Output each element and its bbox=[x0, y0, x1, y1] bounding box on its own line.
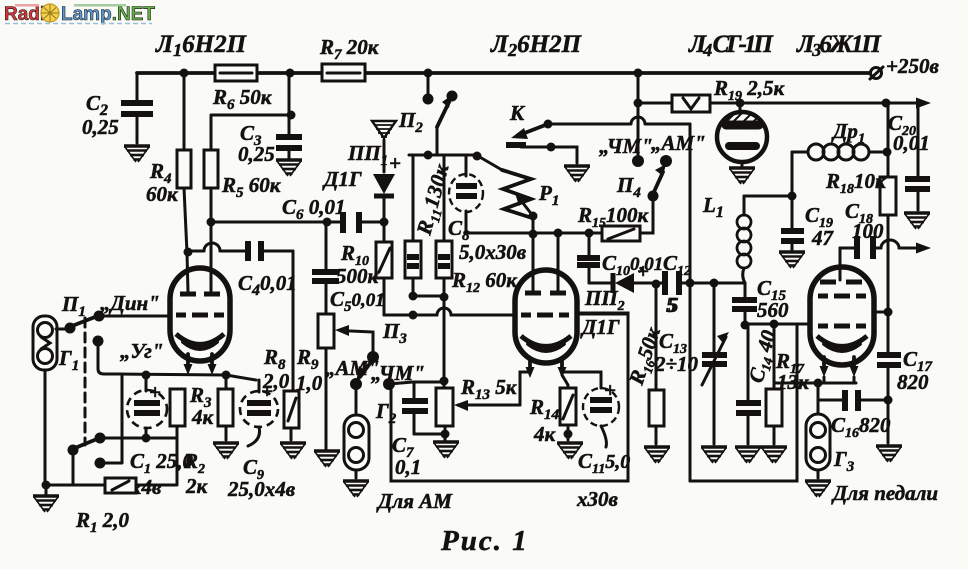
node bus/R4 junction bbox=[180, 69, 189, 78]
svg-text:100: 100 bbox=[852, 219, 884, 243]
ground under R16 bbox=[644, 447, 670, 463]
resistor R15 100k bbox=[577, 203, 650, 241]
resistor R5 60k bbox=[204, 150, 282, 201]
node bus/x638 junction bbox=[634, 69, 643, 78]
svg-text:0,1: 0,1 bbox=[395, 455, 421, 479]
svg-text:Л26Н2П: Л26Н2П bbox=[490, 31, 583, 60]
capacitor C16 820 bbox=[818, 383, 893, 441]
capacitor C5 0,01 bbox=[312, 222, 385, 315]
node contact y438 bbox=[95, 433, 106, 444]
capacitor C15 560 bbox=[732, 276, 789, 325]
node Din contact bbox=[94, 311, 105, 322]
connector G3 bbox=[806, 400, 855, 478]
wire y=233 P1 wiper / C8 / tube L2 / R15 node bbox=[466, 232, 589, 235]
resistor R2 2k bbox=[170, 389, 209, 498]
tube L3 cathode leads bbox=[824, 357, 854, 371]
tube L2 envelope bbox=[515, 270, 577, 363]
svg-text:Radi: Radi bbox=[4, 4, 45, 25]
resistor R6 50k bbox=[212, 65, 273, 113]
ground under R8 bbox=[280, 443, 306, 459]
ground under C17 bbox=[876, 446, 902, 462]
switch P1 top arm bbox=[72, 317, 95, 326]
ground under R13 bbox=[433, 442, 459, 458]
switch P2 arm bbox=[437, 100, 450, 127]
svg-text:+: + bbox=[637, 259, 649, 283]
resistor R17 13k bbox=[766, 324, 810, 444]
ground under K bbox=[564, 166, 590, 182]
wire left column x=413 bbox=[412, 155, 415, 296]
node P4 contact AM bbox=[660, 155, 672, 167]
svg-text:0,25: 0,25 bbox=[82, 115, 119, 139]
ground under R14 bbox=[557, 443, 583, 459]
svg-text:47: 47 bbox=[811, 226, 835, 250]
switch P1 bottom arm bbox=[75, 439, 97, 448]
resistor R4 60k bbox=[146, 150, 191, 206]
wire x690 vertical (K line down to pedal box) bbox=[689, 124, 692, 481]
svg-text:Для педали: Для педали bbox=[831, 481, 938, 505]
svg-text:Д1Г: Д1Г bbox=[322, 167, 362, 191]
L4 hatched anode bbox=[726, 121, 759, 130]
svg-text:Д1Г: Д1Г bbox=[580, 315, 620, 339]
resistor R16 50k bbox=[624, 323, 669, 444]
capacitor C18 100 output bbox=[840, 199, 931, 267]
ground under G3 bbox=[805, 481, 831, 497]
svg-text:Л16Н2П: Л16Н2П bbox=[155, 31, 248, 60]
wire P4 to R15 bbox=[640, 196, 653, 233]
tube L3 top lead bbox=[839, 248, 842, 280]
node P3 common bbox=[367, 351, 379, 363]
svg-text:R6 50к: R6 50к bbox=[212, 85, 273, 113]
tube L2 top electrode bars bbox=[525, 291, 566, 296]
svg-text:820: 820 bbox=[897, 370, 929, 394]
tube L3 grid dashes row2 bbox=[818, 324, 866, 329]
ground under R9 bbox=[314, 451, 340, 467]
wire bus to P2 contact bbox=[427, 73, 430, 95]
trimmer capacitor C13 2-10 bbox=[654, 283, 729, 444]
svg-text:К: К bbox=[509, 101, 526, 125]
svg-text:+250в: +250в bbox=[886, 54, 939, 78]
svg-text:+: + bbox=[604, 378, 616, 402]
wire rail to P1 bbox=[478, 156, 502, 170]
arrow bus2 end bbox=[916, 98, 931, 109]
tube L1 envelope bbox=[170, 268, 230, 361]
connector G1 bbox=[33, 316, 57, 370]
wire Din line to tube L1 grid bbox=[99, 315, 171, 318]
capacitor C6 0,01 bbox=[211, 195, 384, 233]
terminal +250V circle bbox=[871, 68, 882, 79]
svg-text:С6 0,01: С6 0,01 bbox=[282, 195, 346, 223]
resistor R7 20k bbox=[319, 35, 380, 81]
L4 cathode bar bbox=[729, 142, 756, 150]
diode D1G (PP1) bbox=[373, 151, 401, 222]
wire Ug contact down to cathode rail bbox=[98, 341, 120, 374]
connector G2 bbox=[344, 384, 397, 478]
svg-text:Рис. 1: Рис. 1 bbox=[440, 525, 529, 557]
dashed link P1 bbox=[84, 318, 87, 445]
resistor R3 4k bbox=[189, 375, 233, 440]
capacitor C3 bbox=[238, 73, 302, 166]
logo dial icon bbox=[41, 4, 59, 22]
wire G1 bottom down bbox=[44, 370, 47, 485]
svg-text:С40,01: С40,01 bbox=[238, 271, 297, 299]
capacitor C10 0,01 bbox=[577, 233, 663, 283]
resistor R12 60k bbox=[436, 241, 452, 278]
wire K line y=125 to x690 bbox=[548, 117, 690, 124]
antenna/ground top of PP1 chain bbox=[372, 121, 396, 172]
wire grid line right of tube to box bbox=[577, 313, 628, 316]
ground under R3 bbox=[213, 443, 239, 459]
node P3 AM contact bbox=[350, 378, 362, 390]
capacitor C14 40 bbox=[736, 324, 783, 444]
capacitor C12 5 bbox=[663, 251, 745, 317]
capacitor C20 0,01 bbox=[888, 103, 930, 210]
tube L2 cathode leads bbox=[530, 358, 562, 372]
svg-text:0,01: 0,01 bbox=[893, 131, 930, 155]
svg-text:С16820: С16820 bbox=[831, 413, 891, 441]
potentiometer R13 5k bbox=[436, 372, 529, 440]
node P2 contact 2 bbox=[447, 91, 458, 102]
svg-text:Л36Ж1П: Л36Ж1П bbox=[796, 31, 883, 60]
svg-text:„АМ": „АМ" bbox=[651, 131, 706, 155]
svg-text:R1810к: R1810к bbox=[825, 169, 887, 197]
resistor R18 10k bbox=[825, 103, 896, 312]
svg-text:0,25: 0,25 bbox=[238, 142, 275, 166]
ground under C14 bbox=[735, 447, 761, 463]
svg-text:R7 20к: R7 20к bbox=[319, 35, 380, 63]
wire bus to R4 bbox=[183, 73, 186, 150]
tube L1 cathode leads with arrows bbox=[188, 354, 212, 368]
node Ug contact bbox=[93, 336, 104, 347]
P1 zigzag bbox=[502, 170, 531, 217]
svg-text:5: 5 bbox=[666, 293, 677, 317]
svg-text:„Уг": „Уг" bbox=[120, 339, 163, 363]
svg-text:„Дин": „Дин" bbox=[100, 291, 160, 315]
wire bus2 y=103 bbox=[638, 102, 916, 105]
ground under C13 bbox=[701, 447, 727, 463]
svg-text:+: + bbox=[149, 380, 161, 404]
capacitor C17 820 bbox=[877, 312, 933, 443]
pedal box outline bbox=[690, 324, 797, 481]
node P4 contact ChM bbox=[632, 155, 644, 167]
P1 wiper arrow bbox=[519, 198, 533, 216]
ground under G2 bbox=[343, 481, 369, 497]
svg-text:R19 2,5к: R19 2,5к bbox=[713, 76, 786, 104]
node P1 bottom common bbox=[68, 445, 79, 456]
svg-text:500к: 500к bbox=[336, 264, 380, 288]
logo underline bbox=[5, 23, 152, 25]
node P3 ChM contact bbox=[383, 378, 395, 390]
capacitor C19 47 bbox=[781, 196, 835, 250]
node bus/C3 junction bbox=[286, 69, 295, 78]
capacitor C2 bbox=[82, 73, 153, 143]
svg-text:2÷10: 2÷10 bbox=[654, 352, 699, 376]
wire grid line L3 bbox=[745, 323, 810, 326]
svg-text:Lamp.NET: Lamp.NET bbox=[61, 4, 155, 25]
svg-text:560: 560 bbox=[757, 298, 789, 322]
svg-text:+: + bbox=[261, 379, 273, 403]
tube L1 cathode arc bbox=[176, 334, 224, 345]
svg-text:+: + bbox=[389, 151, 401, 175]
ground under C20 bbox=[904, 213, 930, 229]
tube L2 cathode arc bbox=[521, 336, 571, 347]
wire x444 down (hop is in the horizontal wire) bbox=[443, 297, 446, 381]
tube L3 anode wire right bbox=[874, 311, 888, 314]
node cathode rail / R3 bbox=[222, 371, 231, 380]
svg-text:4к: 4к bbox=[191, 405, 215, 429]
node R5/C6 junction bbox=[207, 218, 216, 227]
R9 wiper arrow from P3 bbox=[341, 331, 373, 357]
tube L1 grid dashes bbox=[176, 313, 224, 318]
svg-text:R12 60к: R12 60к bbox=[451, 268, 518, 296]
wire rail y=296/297 bbox=[413, 295, 444, 298]
wire Dr1 node to L1 coil bbox=[744, 195, 792, 198]
resistor R19 2,5k (box with V) bbox=[672, 76, 786, 112]
ground under C19 bbox=[779, 252, 805, 268]
resistor R1 2,0 bbox=[42, 438, 178, 536]
wire R4 down to tube L1 top bbox=[184, 188, 188, 292]
svg-text:Л4 СГ-1П: Л4 СГ-1П bbox=[688, 31, 775, 60]
choke Dr1 bbox=[788, 119, 892, 201]
node bus2 start bbox=[634, 99, 643, 108]
wire rail to C9 bbox=[226, 375, 256, 380]
resistor R8 (grid leak) bbox=[262, 345, 299, 440]
capacitor C11 electrolytic 5,0 bbox=[562, 372, 630, 477]
svg-text:R15100к: R15100к bbox=[577, 203, 650, 231]
wire right column x=444 bbox=[443, 155, 446, 297]
switch K fixed contact bar bbox=[506, 142, 526, 148]
node diode/C6/R10 junction bbox=[380, 218, 389, 227]
svg-text:„ЧМ": „ЧМ" bbox=[599, 134, 653, 158]
diode PP2 bbox=[584, 259, 662, 314]
svg-text:Для АМ: Для АМ bbox=[376, 489, 453, 513]
node contact y463 bbox=[95, 458, 106, 469]
wire top supply bus y=73 bbox=[137, 71, 875, 75]
svg-text:R5 60к: R5 60к bbox=[221, 173, 282, 201]
wire x638 vertical from bus bbox=[637, 73, 640, 156]
capacitor C7 0,1 bbox=[389, 382, 445, 479]
svg-text:С50,01: С50,01 bbox=[330, 287, 385, 315]
capacitor C8 electrolytic bbox=[448, 155, 483, 244]
svg-text:25,0х4в: 25,0х4в bbox=[227, 477, 296, 501]
wire rail y=155 bbox=[409, 154, 478, 157]
node P1 common top bbox=[65, 323, 76, 334]
svg-text:х30в: х30в bbox=[576, 487, 619, 511]
resistor R11 130k bbox=[405, 241, 421, 278]
wires tube L2 top leads bbox=[533, 233, 558, 292]
wire R5 down to C6 node and tube L1 top bbox=[210, 188, 213, 292]
tube L1 top electrode bars bbox=[180, 292, 220, 297]
tube L3 screen dashes row1 bbox=[818, 294, 866, 299]
svg-text:4к: 4к bbox=[533, 422, 557, 446]
tube L3 cathode arc bbox=[817, 336, 867, 347]
node P2 contact 1 bbox=[423, 94, 434, 105]
tube L3 top bars bbox=[820, 280, 862, 285]
wire C4 to R8 bbox=[291, 251, 293, 391]
svg-text:2к: 2к bbox=[185, 474, 209, 498]
wire R16 column bbox=[655, 284, 658, 390]
node bus/P2 junction bbox=[424, 69, 433, 78]
wire K lower contact to ground bbox=[521, 147, 577, 163]
capacitor C9 electrolytic 25,0x4v bbox=[227, 379, 296, 501]
logo small red caption bbox=[15, 4, 39, 7]
tube L2 grid dashes bbox=[521, 313, 569, 318]
switch P3 arm bbox=[360, 362, 371, 377]
ground bottom left bbox=[33, 496, 59, 512]
capacitor C1 electrolytic 25,0 bbox=[127, 371, 194, 500]
wire L3 cathode rail bbox=[774, 377, 856, 383]
ground under R17 bbox=[761, 447, 787, 463]
wire common down to R1 bbox=[72, 450, 75, 485]
ground under L4 bbox=[729, 168, 755, 184]
coil L1 bbox=[702, 193, 751, 283]
R13 wiper arrow bbox=[458, 404, 520, 407]
box AM module outline bbox=[391, 313, 628, 481]
wire lower contact to rail riser bbox=[100, 375, 122, 463]
logo small green caption bbox=[74, 4, 126, 7]
svg-text:60к: 60к bbox=[146, 182, 179, 206]
resistor R14 4k bbox=[529, 375, 576, 446]
ground under C3 bbox=[276, 160, 302, 176]
wire upper contact to C1/R2 bottoms bbox=[100, 437, 177, 440]
wire G1 top to P1 bbox=[56, 328, 70, 331]
svg-text:R1 2,0: R1 2,0 bbox=[75, 508, 130, 536]
capacitor C4 0,01 bbox=[184, 241, 297, 299]
svg-text:1,0: 1,0 bbox=[296, 371, 323, 395]
potentiometer R9 (volume) bbox=[296, 314, 373, 449]
switch P4 arm bbox=[653, 172, 663, 194]
resistor R10 500k (variable) bbox=[336, 222, 392, 315]
switch K arm arrow bbox=[522, 124, 548, 134]
wire cathode rail y375 bbox=[120, 374, 226, 375]
wire grid line y=315 to tube L2 bbox=[384, 314, 515, 317]
ground under C2 bbox=[124, 146, 150, 162]
wire R5 tee to C3 column bbox=[211, 115, 291, 150]
